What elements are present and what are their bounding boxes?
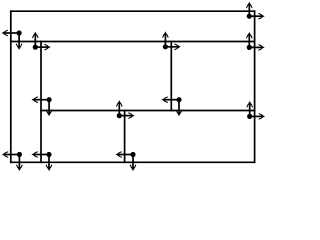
node D bottom-left [161, 97, 181, 116]
node E top-right [117, 100, 135, 118]
wire H3 divider [40, 110, 255, 112]
node F bottom-left [115, 152, 135, 171]
node C top-right [163, 31, 181, 49]
wire V3 divider [124, 110, 126, 163]
node A top-right [247, 2, 265, 19]
wire V5 outer right edge [254, 10, 256, 163]
node C bottom-left [32, 97, 52, 116]
node B top-right [33, 32, 51, 50]
node B bottom-left [2, 152, 22, 171]
wire V1 outer left edge [10, 10, 12, 163]
wire H2 divider [10, 41, 256, 43]
node D top-right [247, 32, 265, 50]
wire V4 divider [170, 41, 172, 112]
node F top-right [247, 101, 265, 119]
node A bottom-left [2, 30, 22, 50]
node E bottom-left [31, 152, 51, 171]
wire V2 divider [40, 41, 42, 163]
wire H1 outer top edge [10, 10, 256, 12]
wire H4 outer bottom edge [10, 161, 256, 163]
